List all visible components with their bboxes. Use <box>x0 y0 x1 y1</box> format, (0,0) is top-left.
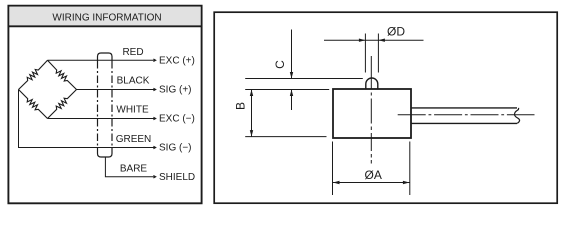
dimension D (button diameter) <box>324 34 424 73</box>
resistor R4 (bridge bottom-right arm) <box>48 90 77 119</box>
svg-text:B: B <box>234 102 248 110</box>
cable centerline <box>398 114 535 116</box>
svg-text:WHITE: WHITE <box>116 105 149 116</box>
header bar <box>8 7 201 27</box>
svg-text:ØD: ØD <box>387 24 405 38</box>
svg-text:SIG (+): SIG (+) <box>159 85 192 96</box>
dimension C (button height) <box>245 30 363 111</box>
svg-text:EXC (−): EXC (−) <box>159 114 195 125</box>
dimension A (body diameter) <box>333 142 411 196</box>
left panel frame <box>8 6 201 204</box>
resistor R2 (bridge top-right arm) <box>48 60 77 89</box>
resistor R3 (bridge bottom-left arm) <box>19 90 48 119</box>
vertical centerline <box>370 56 372 164</box>
wire BLACK (right node to SIG+) <box>77 88 156 91</box>
svg-text:ØA: ØA <box>365 168 382 182</box>
dimension B (body height) <box>245 90 329 137</box>
outline drawing frame <box>214 12 557 203</box>
load cell body <box>333 89 411 138</box>
load button (dome) <box>366 78 378 89</box>
svg-text:EXC (+): EXC (+) <box>159 55 195 66</box>
wire GREEN (left node to SIG-) <box>19 90 156 149</box>
resistor R1 (bridge top-left arm) <box>19 60 48 89</box>
svg-text:WIRING INFORMATION: WIRING INFORMATION <box>52 13 161 24</box>
svg-text:RED: RED <box>122 47 143 58</box>
wire BARE (shield from connector bottom) <box>105 157 155 178</box>
svg-text:GREEN: GREEN <box>116 134 152 145</box>
svg-text:BLACK: BLACK <box>117 76 150 87</box>
svg-text:BARE: BARE <box>120 164 148 175</box>
connector (cable boot, phantom outline) <box>98 53 113 157</box>
svg-text:SIG (−): SIG (−) <box>159 143 192 154</box>
svg-text:C: C <box>273 60 287 69</box>
wire RED (top node to EXC+) <box>48 59 156 62</box>
svg-text:SHIELD: SHIELD <box>159 172 195 183</box>
cable <box>411 108 520 124</box>
wire WHITE (bottom node to EXC-) <box>48 117 156 120</box>
